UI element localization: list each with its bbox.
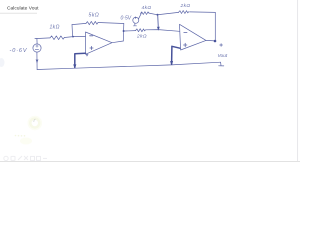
toolbar divider line xyxy=(0,160,300,162)
wire feedback top left xyxy=(72,23,86,24)
V2 plus mark xyxy=(134,17,136,19)
wire feedback right vertical xyxy=(122,24,125,42)
wire U2 output xyxy=(206,39,215,42)
title underline remnant xyxy=(0,12,37,14)
arrow V1 bottom xyxy=(36,60,38,63)
U2 plus mark xyxy=(184,43,187,46)
U1 plus mark xyxy=(90,46,93,49)
resistor R5 xyxy=(179,11,189,14)
resistor R2 xyxy=(86,21,98,24)
label -0.6V xyxy=(10,48,28,54)
wire node A top to R5 xyxy=(159,12,179,14)
node A dot xyxy=(157,14,159,16)
label Vout xyxy=(218,53,228,59)
cursor halo ring xyxy=(30,119,39,128)
svg-text:0·5V: 0·5V xyxy=(121,15,132,21)
source V1 xyxy=(33,44,41,52)
wire U1 output xyxy=(112,41,123,43)
wire R3 to node A xyxy=(149,13,158,15)
label 1kOhm xyxy=(50,24,60,30)
V2 minus mark xyxy=(133,25,137,27)
resistor R4 xyxy=(136,29,146,32)
cursor sparkle dots xyxy=(15,135,26,137)
wire feedback top right xyxy=(98,23,124,24)
svg-text:Vout: Vout xyxy=(218,53,228,59)
arrow U1 plus ground xyxy=(74,65,76,68)
svg-text:5kΩ: 5kΩ xyxy=(89,12,100,18)
label 2kOhm lower xyxy=(136,33,147,39)
wire output vertical xyxy=(214,12,216,41)
wire node A vertical xyxy=(157,15,160,30)
label 0.5V xyxy=(121,15,132,21)
wire U2 plus input thick xyxy=(172,46,180,64)
resistor R1 xyxy=(50,36,64,40)
resistor R3 xyxy=(141,12,150,15)
op-amp U2 xyxy=(180,24,207,50)
node tap dot xyxy=(123,30,125,32)
arrow node A xyxy=(157,27,159,30)
arrow U1 plus corner tick xyxy=(86,54,89,57)
label 2kOhm top xyxy=(180,3,191,9)
svg-text:1kΩ: 1kΩ xyxy=(50,24,60,30)
V1 plus mark xyxy=(36,45,38,47)
U2 minus mark xyxy=(184,32,187,34)
node J1 xyxy=(72,36,74,38)
cursor glow blob xyxy=(20,138,32,145)
svg-text:-0·6V: -0·6V xyxy=(10,48,28,54)
wire feedback left vertical xyxy=(71,25,74,37)
node output dot xyxy=(214,40,217,43)
wire V1 bottom xyxy=(36,52,38,69)
right scrollbar line xyxy=(297,0,299,161)
toolbar icons xyxy=(4,156,47,161)
wire V2 to R3 xyxy=(139,13,142,18)
wire tap to R4 xyxy=(125,30,136,32)
wire U1 plus input thick xyxy=(75,53,86,67)
bottom rail wire xyxy=(37,62,221,69)
left edge smudge xyxy=(0,58,5,67)
svg-text:2kΩ: 2kΩ xyxy=(180,3,191,9)
label 4kOhm xyxy=(142,5,152,11)
V2 bottom stub xyxy=(134,23,136,25)
plus polarity mark xyxy=(220,44,223,47)
label 5kOhm xyxy=(89,12,100,18)
ground right xyxy=(219,62,224,66)
wire R5 to output corner xyxy=(190,11,216,14)
wire R1 to node J1 xyxy=(65,36,86,39)
V1 minus mark xyxy=(35,49,38,51)
arrow U2 plus ground xyxy=(171,61,173,64)
U1 minus mark xyxy=(90,35,93,37)
wire V1 top stub xyxy=(36,38,38,44)
wire R4 to U2 minus xyxy=(146,30,180,32)
op-amp U1 xyxy=(86,32,113,54)
source V2 xyxy=(133,17,139,23)
svg-text:2kΩ: 2kΩ xyxy=(136,33,147,39)
svg-text:4kΩ: 4kΩ xyxy=(142,5,152,11)
wire input horizontal xyxy=(35,37,50,40)
svg-text:Calculate Vout: Calculate Vout xyxy=(7,5,39,11)
